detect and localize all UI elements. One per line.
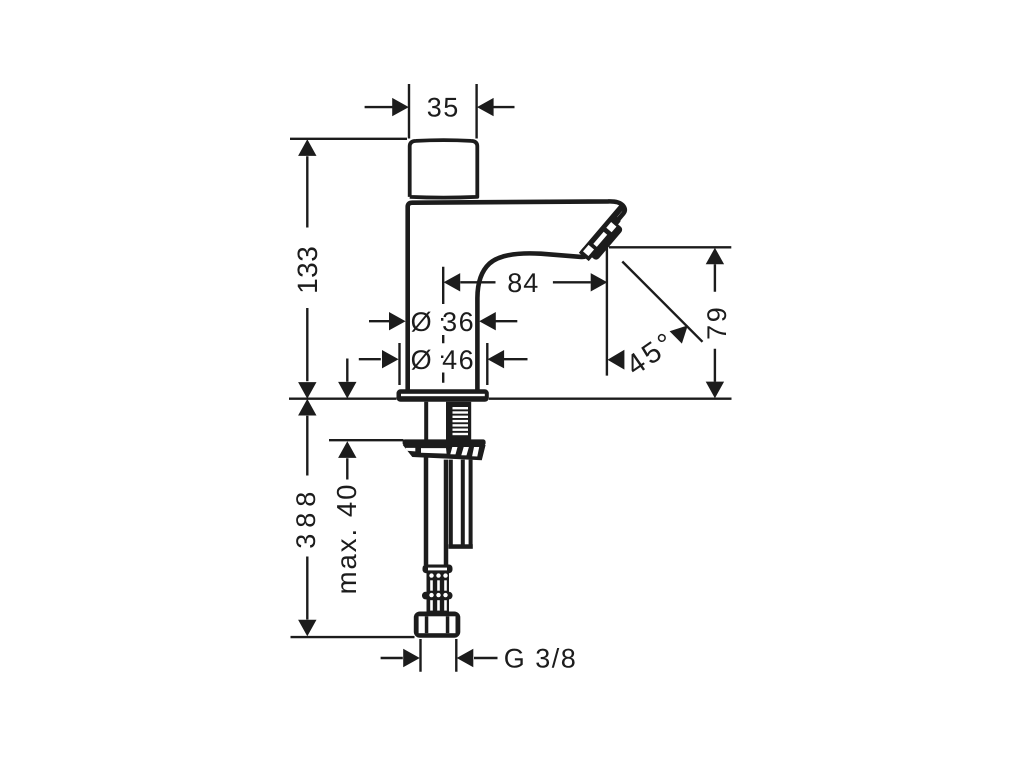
svg-text:388: 388 [291, 486, 321, 549]
dim 388: bottom extension line [291, 636, 415, 638]
countertop line [289, 398, 732, 400]
dim 79: dimension line + arrows [714, 264, 716, 381]
faucet body and spout outline [408, 201, 625, 390]
svg-text:Ø 46: Ø 46 [411, 345, 476, 375]
dim 84: right extension line [606, 247, 608, 376]
mounting stud tubes [451, 460, 471, 545]
svg-text:G 3/8: G 3/8 [504, 643, 578, 673]
G3/8 compression nut [414, 612, 461, 638]
aerator at 45 deg on spout tip [579, 202, 636, 265]
corrugated flex section [427, 573, 450, 613]
dim G38: extension lines below nut [421, 639, 457, 672]
dim 84: left extension (body centerline) [442, 267, 443, 383]
dim 133: extension line at handle top [290, 138, 407, 140]
svg-text:max. 40: max. 40 [331, 483, 362, 595]
dim 133: dimension line with arrows [306, 156, 308, 381]
mounting washer plate [403, 439, 486, 460]
dim 45deg: arrows [608, 350, 625, 370]
dim O46: extension lines at flange [400, 343, 488, 385]
svg-text:79: 79 [702, 305, 732, 340]
svg-text:35: 35 [427, 93, 460, 123]
dim max40: washer-top extension line [329, 439, 404, 441]
svg-text:84: 84 [507, 268, 539, 298]
supply pipe below washer [426, 457, 446, 566]
flexible hose collar [422, 565, 453, 613]
dim O36: lines + arrows [369, 320, 517, 322]
dim 45deg: diagonal leader line [622, 262, 702, 342]
base flange [397, 389, 489, 402]
svg-text:Ø 36: Ø 36 [411, 307, 476, 337]
dim 35: dimension line and arrows [365, 106, 515, 108]
dim O46: lines + arrows [359, 358, 528, 360]
dim 79: top extension line [609, 246, 731, 248]
dim 388: dimension line with arrows [306, 416, 308, 620]
handle knob [410, 140, 478, 198]
svg-text:133: 133 [292, 246, 323, 294]
dim G38: lines + arrows [381, 657, 498, 659]
threaded shank below counter [426, 402, 448, 440]
dim 35: extension lines above handle [409, 84, 477, 139]
dim 84: dimension line + arrows [460, 281, 591, 283]
dim max40: line + arrows [346, 359, 348, 480]
